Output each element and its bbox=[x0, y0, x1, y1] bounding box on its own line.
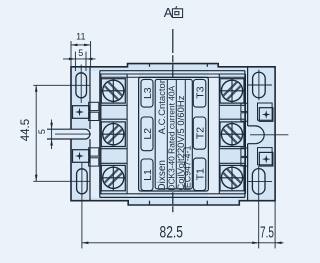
DIN rail tongue left bbox=[47, 129, 90, 139]
mounting slot bottom-right bbox=[252, 169, 265, 195]
interlock tab right a bbox=[241, 103, 248, 111]
dim82.5 arrow right bbox=[252, 242, 259, 245]
block bottom line 1 bbox=[100, 193, 245, 195]
left column separator 2a bbox=[101, 148, 127, 150]
interlock tab left b bbox=[89, 112, 99, 120]
dim11 arrow left bbox=[71, 44, 78, 47]
block top line 1 bbox=[100, 70, 245, 72]
contactor body outline fill bbox=[71, 64, 275, 205]
cell T1 bbox=[193, 158, 206, 190]
oval4 vertical centerline / 7.5 ext left bbox=[258, 166, 260, 248]
dim7.5 ext right / body right edge ext bbox=[274, 201, 276, 249]
svg-text:DCK3-40 Rated current 40A: DCK3-40 Rated current 40A bbox=[167, 85, 177, 190]
dim5top ext right bbox=[85, 52, 87, 72]
left flange inner edge upper bbox=[89, 67, 91, 129]
interlock tab right b bbox=[241, 113, 248, 121]
view label xiang glyph bbox=[172, 6, 182, 17]
dim5top arrow left bbox=[69, 58, 76, 61]
fastener star top-right bbox=[262, 110, 271, 119]
brand box separator 1 bbox=[166, 79, 168, 188]
dim5left arrow top bbox=[50, 123, 53, 130]
top tab tick left bbox=[149, 64, 151, 67]
terminal screw T2 (mid-right) bbox=[219, 121, 245, 147]
svg-text:A: A bbox=[164, 5, 173, 20]
svg-text:5: 5 bbox=[37, 129, 47, 134]
interlock tab left d bbox=[89, 158, 99, 166]
svg-text:T3: T3 bbox=[194, 86, 206, 98]
cell T2 bbox=[193, 117, 206, 149]
oval3 horizontal centerline bbox=[247, 84, 272, 86]
contactor body outline bbox=[71, 64, 275, 205]
cell L3 bbox=[141, 79, 153, 107]
fastener star bottom-left bbox=[75, 152, 84, 161]
star pad bottom-left bbox=[73, 150, 90, 163]
terminal screw T3 (bottom-right) bbox=[219, 165, 245, 191]
star pad top-left bbox=[73, 106, 90, 119]
dim5top ext left bbox=[74, 52, 76, 72]
interlock tab right c bbox=[241, 148, 248, 156]
right flange inner edge lower bbox=[247, 144, 249, 201]
dim5left arrow bottom bbox=[50, 139, 53, 146]
oval2 vertical centerline / 82.5 ext left bbox=[81, 163, 83, 249]
cell L2 bbox=[141, 117, 153, 151]
fastener star bottom-right bbox=[262, 155, 271, 164]
oval1 vertical centerline bbox=[80, 65, 82, 104]
cell L1 bbox=[141, 159, 153, 191]
svg-text:T1: T1 bbox=[194, 168, 206, 180]
left column separator 2b bbox=[101, 162, 127, 164]
section center line upper bbox=[172, 29, 174, 79]
brand box separator 3 bbox=[184, 79, 186, 188]
mounting slot top-left bbox=[76, 73, 87, 98]
gap strip left of label panel bbox=[128, 71, 139, 197]
svg-text:IEC947-4-1: IEC947-4-1 bbox=[183, 146, 193, 191]
terminal screw T1 (top-right) bbox=[219, 78, 245, 104]
bottom tab tick left bbox=[149, 201, 151, 205]
dim44.5 arrow bottom bbox=[35, 175, 38, 182]
svg-text:82.5: 82.5 bbox=[160, 224, 183, 242]
dim11 ext right bbox=[90, 41, 92, 67]
terminal screw L2 (mid-left) bbox=[100, 121, 126, 147]
dim5top arrow right bbox=[86, 58, 93, 61]
brand label box bbox=[155, 79, 192, 188]
left flange inner edge lower bbox=[89, 139, 91, 201]
dim5left line bbox=[51, 120, 53, 150]
svg-text:11: 11 bbox=[76, 31, 85, 41]
svg-text:L3: L3 bbox=[142, 87, 154, 99]
dim44.5 arrow top bbox=[35, 85, 38, 92]
svg-text:L2: L2 bbox=[142, 128, 154, 140]
cell T3 bbox=[193, 79, 206, 107]
terminal block right edge bbox=[244, 71, 246, 198]
left column separator 1a bbox=[101, 104, 127, 106]
block top line 2 bbox=[100, 73, 245, 75]
block bottom line 2 bbox=[100, 196, 245, 198]
right column separator 1a bbox=[219, 104, 245, 106]
star pad top-right bbox=[259, 108, 273, 122]
svg-text:44.5: 44.5 bbox=[20, 119, 32, 141]
right column separator 1b bbox=[219, 118, 245, 120]
interlock tab left c bbox=[89, 148, 99, 156]
star pad bracket bottom-right bbox=[258, 148, 273, 165]
dim7.5 arrow right bbox=[275, 242, 282, 245]
section center line lower bbox=[172, 192, 174, 214]
brand box separator 2 bbox=[175, 79, 177, 188]
gap strip left side wall bbox=[90, 71, 100, 197]
oval1 horizontal centerline / 44.5 ext top bbox=[33, 84, 90, 86]
dim7.5 line right part bbox=[259, 242, 284, 244]
oval3 vertical centerline bbox=[258, 70, 260, 101]
star pad bracket top-right bbox=[258, 103, 273, 120]
dim11 ext left bbox=[70, 41, 72, 67]
right column separator 2b bbox=[219, 162, 245, 164]
terminal block left edge bbox=[99, 71, 101, 198]
left column outer left bbox=[100, 74, 102, 194]
clip centerline right bbox=[250, 134, 288, 136]
tongue centerline left bbox=[55, 133, 91, 135]
right column outer right bbox=[245, 74, 247, 194]
dim82.5 arrow left bbox=[82, 242, 89, 245]
svg-text:5: 5 bbox=[78, 48, 83, 58]
mounting slot bottom-left bbox=[77, 169, 88, 194]
terminal screw L3 (bottom-left) bbox=[100, 165, 126, 191]
left column separator 1b bbox=[101, 118, 127, 120]
oval2 horizontal centerline / 44.5 ext bottom bbox=[33, 180, 90, 182]
block top line 3 bbox=[101, 76, 245, 78]
svg-text:7.5: 7.5 bbox=[260, 223, 274, 241]
label panel outer bbox=[139, 77, 209, 191]
dim11 arrow right bbox=[84, 44, 91, 47]
terminal screw L1 (top-left) bbox=[100, 78, 126, 104]
dim44.5 line bbox=[35, 85, 37, 181]
interlock tab right d bbox=[241, 158, 248, 166]
DIN release clip right bbox=[248, 126, 265, 144]
right column separator 2a bbox=[219, 148, 245, 150]
oval4 horizontal centerline bbox=[247, 180, 272, 182]
right column outer left bbox=[218, 74, 220, 194]
top tab tick right bbox=[206, 64, 208, 67]
svg-text:L1: L1 bbox=[142, 169, 154, 181]
left column outer right bbox=[126, 74, 128, 194]
gap strip right of label panel bbox=[208, 71, 220, 197]
mounting slot top-right bbox=[253, 72, 266, 98]
bottom tab tick right bbox=[206, 201, 208, 205]
fastener star top-left bbox=[75, 108, 84, 117]
interlock tab left a bbox=[89, 102, 99, 110]
svg-text:T2: T2 bbox=[194, 127, 206, 139]
dim5top line bbox=[63, 58, 96, 60]
right flange inner edge upper bbox=[247, 67, 249, 126]
dim82.5 line bbox=[82, 242, 259, 244]
dim11 line bbox=[71, 44, 91, 46]
gap strip right side wall bbox=[245, 71, 248, 197]
star pad bottom-right bbox=[259, 152, 273, 166]
